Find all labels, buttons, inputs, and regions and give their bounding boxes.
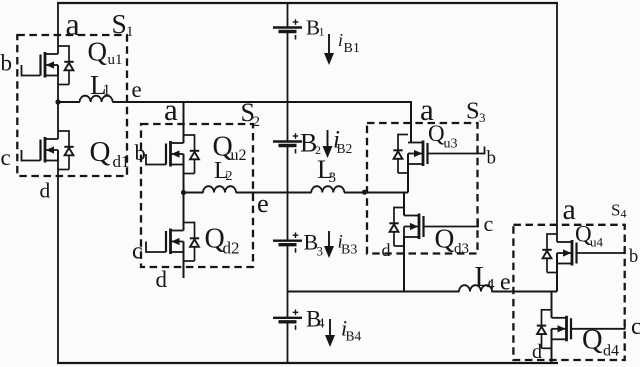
label terminal a of S3 bbox=[420, 92, 434, 127]
label terminal c of S4 bbox=[631, 314, 640, 340]
svg-text:e: e bbox=[500, 270, 511, 296]
module box S1 bbox=[17, 35, 127, 176]
wire left bus middle (Qu1 source to Qd1 drain) bbox=[57, 65, 59, 139]
svg-text:2: 2 bbox=[226, 169, 233, 184]
label terminal d of S2 bbox=[156, 267, 168, 292]
svg-text:2: 2 bbox=[253, 114, 261, 130]
transistor Q_u1 (upper MOSFET of S1) bbox=[22, 45, 74, 84]
transistor Q_u3 (upper MOSFET of S3) bbox=[393, 134, 484, 173]
current arrow iB3 bbox=[324, 231, 334, 258]
svg-text:1: 1 bbox=[103, 82, 111, 99]
svg-text:b: b bbox=[487, 148, 497, 169]
svg-text:u4: u4 bbox=[590, 235, 604, 250]
transistor Q_d4 (lower MOSFET of S4) bbox=[537, 309, 625, 348]
svg-text:Q: Q bbox=[90, 136, 111, 168]
label Q_u3 bbox=[428, 121, 458, 152]
svg-text:e: e bbox=[132, 77, 142, 102]
svg-text:S: S bbox=[466, 98, 480, 125]
label B4 bbox=[306, 307, 325, 332]
svg-text:d3: d3 bbox=[454, 241, 469, 257]
label B3 bbox=[304, 230, 324, 259]
svg-text:4: 4 bbox=[621, 207, 627, 221]
label L4 bbox=[475, 262, 495, 294]
current arrow iB4 bbox=[325, 319, 335, 347]
wire L1 to S3 node a (through battery bus and S2 node a) bbox=[112, 101, 411, 103]
battery B3 bbox=[273, 232, 302, 252]
inductor L2 bbox=[203, 186, 236, 192]
wire S2 phase column (Qu2 source to Qd2 drain) bbox=[183, 154, 185, 231]
battery B2 bbox=[273, 133, 302, 153]
svg-text:d2: d2 bbox=[223, 239, 240, 258]
svg-text:B2: B2 bbox=[337, 141, 353, 156]
svg-text:a: a bbox=[66, 6, 80, 42]
label B1 bbox=[306, 16, 325, 40]
svg-text:Q: Q bbox=[582, 325, 603, 356]
wire S4 drain drop from top rail bbox=[556, 2, 558, 242]
svg-text:d: d bbox=[156, 267, 168, 292]
label S3 bbox=[466, 98, 486, 126]
label terminal d of S1 bbox=[40, 179, 51, 203]
wire L2 to L3 (through battery bus) bbox=[236, 192, 312, 194]
svg-text:d: d bbox=[40, 179, 51, 203]
current arrow iB2 bbox=[323, 130, 333, 158]
wire S4 terminal d to bottom rail bbox=[551, 329, 553, 363]
svg-text:d4: d4 bbox=[603, 343, 619, 360]
label Q_u1 bbox=[88, 37, 123, 69]
svg-text:u3: u3 bbox=[444, 137, 458, 152]
node dot at S3 box edge bbox=[362, 190, 367, 195]
label iB3 bbox=[338, 232, 358, 258]
svg-text:e: e bbox=[257, 188, 269, 218]
svg-text:Q: Q bbox=[435, 223, 455, 254]
node S2 phase junction dot bbox=[181, 190, 186, 195]
label iB2 bbox=[333, 127, 352, 157]
label S4 bbox=[611, 201, 627, 221]
wire top rail (node a of S1 to node a of S4) bbox=[57, 2, 558, 4]
svg-text:a: a bbox=[420, 92, 434, 127]
label terminal e of S1 bbox=[132, 77, 142, 102]
svg-text:a: a bbox=[164, 92, 178, 127]
label terminal d of S4 bbox=[532, 341, 542, 363]
label Q_d1 bbox=[90, 136, 130, 171]
inductor L4 bbox=[459, 285, 492, 291]
svg-text:3: 3 bbox=[317, 244, 324, 259]
svg-text:3: 3 bbox=[479, 110, 486, 125]
label terminal b of S1 bbox=[1, 51, 13, 76]
wire left bus lower (Qd1 source to bottom rail) bbox=[57, 150, 59, 363]
wire left bus upper (top rail to Qu1 drain) bbox=[57, 2, 59, 54]
wire battery bus top segment bbox=[287, 2, 289, 28]
module box S4 bbox=[513, 225, 624, 360]
wire Qd4 drain drop bbox=[551, 292, 553, 318]
current arrow iB1 bbox=[324, 34, 334, 65]
label L1 bbox=[90, 70, 111, 100]
label L3 bbox=[317, 154, 336, 186]
svg-text:c: c bbox=[631, 314, 640, 340]
svg-text:c: c bbox=[132, 239, 143, 265]
inductor L1 bbox=[80, 96, 113, 102]
transistor Q_d1 (lower MOSFET of S1) bbox=[22, 130, 74, 169]
svg-text:i: i bbox=[338, 30, 343, 50]
svg-text:b: b bbox=[135, 140, 146, 165]
svg-text:S: S bbox=[112, 8, 127, 39]
svg-text:a: a bbox=[563, 193, 576, 226]
wire battery bus to L4 (B3/B4 junction row) bbox=[288, 291, 460, 293]
label terminal c of S3 bbox=[484, 211, 494, 236]
svg-text:u1: u1 bbox=[108, 52, 123, 68]
svg-text:d: d bbox=[532, 341, 542, 363]
label terminal e of S2 bbox=[257, 188, 269, 218]
svg-text:d1: d1 bbox=[113, 152, 130, 171]
wire S2 terminal d stub bbox=[183, 242, 185, 279]
node S1 phase junction dot bbox=[55, 99, 60, 104]
label Q_u4 bbox=[575, 222, 604, 250]
label terminal c of S2 bbox=[132, 239, 143, 265]
label terminal c of S1 bbox=[1, 145, 11, 170]
wire L4 to S4 phase bbox=[491, 291, 557, 293]
label iB4 bbox=[341, 316, 362, 344]
svg-text:u2: u2 bbox=[231, 147, 247, 164]
wire battery bus B2-B3 segment bbox=[287, 146, 289, 241]
module box S3 bbox=[367, 123, 478, 254]
wire S4 phase column (Qu4 source down to B3/B4 row) bbox=[556, 253, 558, 292]
label terminal a of S1 bbox=[66, 6, 80, 42]
module box S2 bbox=[141, 124, 253, 267]
label B2 bbox=[300, 129, 321, 158]
battery B1 bbox=[273, 19, 302, 39]
label terminal b of S3 bbox=[487, 148, 497, 169]
wire S2 phase to L2 bbox=[184, 192, 204, 194]
transistor Q_d3 (lower MOSFET of S3) bbox=[389, 207, 478, 246]
label iB1 bbox=[338, 30, 360, 56]
transistor Q_u4 (upper MOSFET of S4) bbox=[542, 233, 624, 272]
wire S3 node a drop bbox=[410, 101, 412, 143]
svg-text:b: b bbox=[1, 51, 13, 76]
wire Qd3 drain drop bbox=[403, 193, 405, 216]
label terminal a of S2 bbox=[164, 92, 178, 127]
wire S2 node a drop bbox=[183, 101, 185, 143]
wire battery bus B3-B4 segment bbox=[287, 245, 289, 318]
svg-text:B1: B1 bbox=[344, 41, 360, 56]
transistor Q_u2 (upper MOSFET of S2) bbox=[146, 134, 199, 173]
svg-text:1: 1 bbox=[319, 25, 325, 39]
svg-text:Q: Q bbox=[88, 37, 108, 67]
svg-text:c: c bbox=[484, 211, 494, 236]
wire bottom rail bbox=[57, 362, 558, 364]
label Q_d4 bbox=[582, 325, 619, 360]
label Q_d2 bbox=[205, 224, 240, 258]
label S2 bbox=[241, 98, 261, 130]
wire battery bus bottom segment bbox=[287, 322, 289, 363]
label terminal b of S2 bbox=[135, 140, 146, 165]
wire battery bus B1-B2 segment bbox=[287, 32, 289, 142]
svg-text:1: 1 bbox=[126, 24, 134, 40]
svg-text:b: b bbox=[629, 247, 638, 267]
inductor L3 bbox=[311, 186, 344, 192]
wire S1 phase to L1 bbox=[58, 101, 80, 103]
label S1 bbox=[112, 8, 134, 40]
svg-text:c: c bbox=[1, 145, 11, 170]
svg-text:S: S bbox=[611, 201, 620, 220]
wire S3 phase column (Qu3 source down to B2/B3 row) bbox=[407, 154, 409, 193]
label terminal a of S4 bbox=[563, 193, 576, 226]
label Q_d3 bbox=[435, 223, 470, 258]
battery B4 bbox=[273, 310, 302, 330]
wire S3 terminal d to B3/B4 row bbox=[403, 237, 405, 292]
transistor Q_d2 (lower MOSFET of S2) bbox=[146, 222, 199, 261]
label Q_u2 bbox=[213, 132, 247, 165]
svg-text:d: d bbox=[382, 240, 391, 260]
svg-text:4: 4 bbox=[318, 317, 325, 332]
svg-text:3: 3 bbox=[329, 170, 337, 186]
svg-text:B4: B4 bbox=[346, 329, 362, 344]
label L2 bbox=[214, 158, 233, 184]
label terminal d of S3 bbox=[382, 240, 391, 260]
label terminal e of S4 bbox=[500, 270, 511, 296]
wire L3 to S3 phase bbox=[344, 192, 408, 194]
label terminal b of S4 bbox=[629, 247, 638, 267]
svg-text:B3: B3 bbox=[341, 243, 357, 258]
